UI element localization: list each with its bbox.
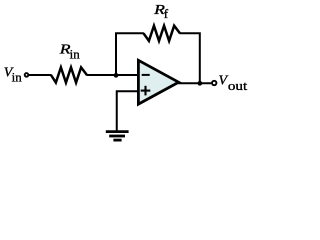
wire Rin to op-amp inverting input xyxy=(87,74,140,76)
node junction at inverting input xyxy=(114,73,119,78)
terminal Vout xyxy=(212,81,216,85)
svg-text:in: in xyxy=(12,70,23,85)
op-amp inverting input minus sign xyxy=(142,74,150,76)
wire feedback right and down segment xyxy=(180,33,200,83)
wire noninverting input to ground xyxy=(117,91,139,130)
svg-text:f: f xyxy=(164,6,169,21)
ground xyxy=(106,132,129,141)
wire feedback up and left segment xyxy=(116,33,144,75)
resistor Rf xyxy=(144,26,180,41)
node junction at output xyxy=(198,81,203,86)
op-amp noninverting input plus sign xyxy=(141,90,151,92)
resistor Rin xyxy=(51,67,87,82)
terminal Vin xyxy=(25,73,29,77)
svg-text:out: out xyxy=(228,78,248,93)
op-amp U1 triangle xyxy=(138,60,178,104)
svg-text:in: in xyxy=(70,47,81,62)
wire input xyxy=(29,74,52,76)
wire output xyxy=(178,82,211,84)
